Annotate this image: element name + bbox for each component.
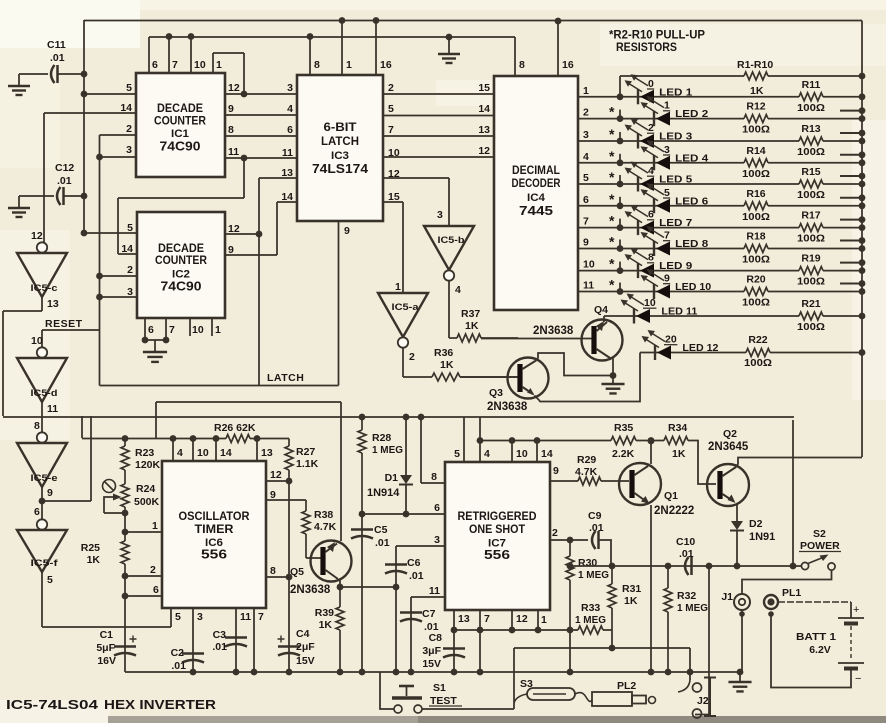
svg-text:10: 10 <box>583 259 595 271</box>
svg-text:100Ω: 100Ω <box>742 297 770 309</box>
svg-text:PL2: PL2 <box>617 680 636 692</box>
svg-text:2N2222: 2N2222 <box>654 505 694 517</box>
svg-text:R35: R35 <box>614 422 633 434</box>
svg-text:7445: 7445 <box>519 204 553 218</box>
svg-text:7: 7 <box>172 59 178 71</box>
IC6 bottom stubs <box>170 608 172 627</box>
svg-text:5: 5 <box>126 82 132 94</box>
svg-text:*: * <box>609 148 615 164</box>
svg-text:IC5-74LS04: IC5-74LS04 <box>6 697 99 712</box>
svg-text:10: 10 <box>31 335 43 347</box>
svg-text:5: 5 <box>454 448 460 460</box>
capacitor C6 .01 <box>395 546 397 672</box>
svg-text:7: 7 <box>258 611 264 623</box>
capacitor C12 <box>57 187 61 205</box>
svg-text:6: 6 <box>287 124 293 136</box>
LED 10 <box>653 284 655 299</box>
svg-text:IC4: IC4 <box>527 192 546 204</box>
svg-text:1K: 1K <box>672 448 686 460</box>
Q5 collector line <box>156 401 341 403</box>
svg-text:12: 12 <box>516 613 528 625</box>
svg-text:1: 1 <box>541 614 547 626</box>
svg-text:1: 1 <box>395 281 401 293</box>
svg-text:R28: R28 <box>372 432 391 444</box>
svg-text:100Ω: 100Ω <box>744 357 772 369</box>
wire IC3 pin5 to IC4 pin14 <box>383 115 494 117</box>
resistor R14 100ohm <box>744 159 768 167</box>
IC3 pin9 stub down <box>338 221 340 386</box>
svg-text:C9: C9 <box>588 510 602 522</box>
svg-text:4.7K: 4.7K <box>314 521 337 533</box>
svg-text:11: 11 <box>282 147 293 159</box>
svg-text:11: 11 <box>228 146 239 158</box>
svg-text:R36: R36 <box>434 347 453 359</box>
svg-text:12: 12 <box>31 230 43 242</box>
svg-text:1 MEG: 1 MEG <box>578 569 609 581</box>
svg-text:2μF: 2μF <box>296 641 315 653</box>
V+ rail right side <box>861 21 863 458</box>
IC5-d output to IC5-e <box>41 402 43 432</box>
svg-text:12: 12 <box>478 145 490 157</box>
svg-text:2N3638: 2N3638 <box>533 325 574 337</box>
svg-text:LED 5: LED 5 <box>659 174 692 186</box>
svg-text:15V: 15V <box>422 658 441 670</box>
svg-text:C8: C8 <box>429 632 443 644</box>
svg-text:LED 2: LED 2 <box>675 108 708 120</box>
wire IC6 pin6 <box>124 576 126 596</box>
svg-text:556: 556 <box>201 548 227 562</box>
svg-text:100Ω: 100Ω <box>797 102 825 114</box>
6-bit latch IC3 74LS174 box <box>297 75 383 221</box>
svg-text:15: 15 <box>478 82 490 94</box>
ground below Q4 <box>601 383 624 385</box>
svg-text:7: 7 <box>388 124 394 136</box>
resistor R18 100ohm <box>744 245 768 253</box>
Q4 emitter wire up to LED11 <box>603 316 605 322</box>
svg-text:1: 1 <box>215 324 221 336</box>
svg-text:1N914: 1N914 <box>367 487 400 499</box>
svg-text:4: 4 <box>455 284 461 296</box>
wire IC6 pin2 <box>122 573 129 580</box>
svg-text:1 MEG: 1 MEG <box>575 614 606 626</box>
svg-text:6: 6 <box>583 194 589 206</box>
svg-text:R18: R18 <box>746 231 765 243</box>
svg-text:2: 2 <box>583 107 589 119</box>
svg-text:R33: R33 <box>581 602 600 614</box>
inverter IC5-f <box>37 519 47 529</box>
ground below J1 <box>728 681 751 683</box>
wire C5/D1 node to IC7 pin6 <box>362 513 445 515</box>
svg-text:RESISTORS: RESISTORS <box>616 42 677 54</box>
svg-text:R19: R19 <box>801 253 820 265</box>
svg-text:9: 9 <box>553 465 559 477</box>
svg-text:C12: C12 <box>55 162 74 174</box>
svg-text:3: 3 <box>197 611 203 623</box>
svg-text:13: 13 <box>478 124 490 136</box>
vertical pin12 to pin8 <box>288 481 290 577</box>
IC7 bottom rail <box>454 629 578 631</box>
Q3 collector jog to Q4 ground node <box>536 353 613 376</box>
svg-text:C6: C6 <box>407 557 421 569</box>
svg-text:2: 2 <box>127 264 133 276</box>
ground for C12 <box>18 196 20 208</box>
svg-text:4: 4 <box>177 447 183 459</box>
svg-text:R17: R17 <box>801 210 820 222</box>
svg-text:2: 2 <box>552 527 558 539</box>
node C11/V+ vertical <box>81 71 88 78</box>
svg-text:C11: C11 <box>47 39 66 51</box>
svg-text:.01: .01 <box>50 52 65 64</box>
resistor R20 100ohm <box>744 288 768 296</box>
IC3 pin13 wire <box>259 177 297 179</box>
resistor R11 100ohm <box>799 93 823 101</box>
svg-text:R22: R22 <box>748 334 767 346</box>
svg-text:C10: C10 <box>676 536 695 548</box>
svg-text:*: * <box>609 169 615 185</box>
svg-text:IC5-c: IC5-c <box>31 283 58 294</box>
svg-text:IC3: IC3 <box>331 150 349 162</box>
svg-text:S1: S1 <box>433 682 446 694</box>
LED 4 <box>653 155 655 170</box>
resistor R12 100ohm <box>744 115 768 123</box>
transistor Q4 2N3638 <box>481 338 592 340</box>
svg-text:LED 10: LED 10 <box>675 281 711 293</box>
LED 7 <box>637 220 639 235</box>
svg-text:−: − <box>855 673 861 685</box>
wire C11 to node <box>58 73 84 75</box>
wire IC3 pin2 to IC4 pin15 <box>383 93 494 95</box>
R31 bottom to S1 line <box>611 630 613 648</box>
svg-text:74C90: 74C90 <box>160 140 201 154</box>
Q5 collector junction down to R39 <box>339 580 341 587</box>
diode D2 1N91 <box>731 521 743 530</box>
wire IC3 pin12 to IC5-b input <box>383 177 449 179</box>
svg-text:1K: 1K <box>624 595 638 607</box>
diode D1 1N914 <box>403 414 410 421</box>
svg-text:10: 10 <box>516 448 528 460</box>
svg-text:R13: R13 <box>801 123 820 135</box>
svg-text:13: 13 <box>458 613 470 625</box>
svg-text:TIMER: TIMER <box>195 522 234 536</box>
capacitor C1 5uF 16V <box>124 596 126 672</box>
svg-text:RESET: RESET <box>45 318 83 330</box>
inverter IC5-e <box>37 432 47 442</box>
wire IC6 pin8 <box>286 574 293 581</box>
svg-text:LATCH: LATCH <box>267 372 304 384</box>
wire J1 to ground <box>741 610 743 672</box>
svg-text:4: 4 <box>287 103 293 115</box>
wire C12 to node <box>64 195 84 197</box>
svg-text:74LS174: 74LS174 <box>312 162 368 176</box>
svg-text:100Ω: 100Ω <box>742 168 770 180</box>
svg-text:R34: R34 <box>668 422 687 434</box>
wire C12 left <box>19 195 54 197</box>
svg-text:C2: C2 <box>171 647 185 659</box>
svg-text:14: 14 <box>478 103 490 115</box>
resistor R17 100ohm <box>799 224 823 232</box>
pull-up R2-R10 stubs on V+ rail <box>840 110 862 112</box>
svg-text:LED 9: LED 9 <box>659 260 692 272</box>
capacitor C2 .01 <box>182 652 204 655</box>
ground below IC2 <box>143 351 167 353</box>
oscillator timer IC6 556 box <box>162 461 266 608</box>
svg-text:100Ω: 100Ω <box>742 211 770 223</box>
svg-text:100Ω: 100Ω <box>797 233 825 245</box>
svg-text:12: 12 <box>270 469 282 481</box>
svg-text:16: 16 <box>380 59 392 71</box>
LED 6 <box>653 198 655 213</box>
capacitor C9 .01 <box>570 539 588 541</box>
svg-text:13: 13 <box>261 447 273 459</box>
wire IC7 pin11 to C7 <box>411 596 445 598</box>
svg-text:R1-R10: R1-R10 <box>737 59 773 71</box>
wire IC3 pin7 to IC4 pin13 <box>383 135 494 137</box>
svg-text:2: 2 <box>126 123 132 135</box>
svg-text:1: 1 <box>216 59 222 71</box>
resistor R19 100ohm <box>799 267 823 275</box>
svg-text:+: + <box>853 604 859 616</box>
svg-text:R21: R21 <box>801 298 820 310</box>
svg-text:13: 13 <box>281 167 293 179</box>
capacitor C8 3uF 15V <box>453 630 455 672</box>
wire C11 left <box>19 73 48 75</box>
svg-text:1K: 1K <box>319 619 333 631</box>
LED 5 <box>637 177 639 192</box>
svg-text:.01: .01 <box>409 570 424 582</box>
svg-text:11: 11 <box>429 585 440 597</box>
capacitor C10 .01 <box>685 557 689 575</box>
svg-text:*: * <box>609 104 615 120</box>
svg-text:7: 7 <box>583 216 589 228</box>
svg-text:.01: .01 <box>57 175 72 187</box>
wire IC3 pin10 to IC4 pin12 <box>383 156 494 158</box>
battery top cell <box>838 617 864 619</box>
LED 11 <box>633 309 635 324</box>
svg-text:IC5-a: IC5-a <box>392 302 420 313</box>
IC5-e input junction to IC5-f output <box>41 487 43 519</box>
svg-text:2: 2 <box>150 564 156 576</box>
svg-text:.01: .01 <box>589 522 604 534</box>
svg-text:C7: C7 <box>422 608 436 620</box>
svg-text:R25: R25 <box>81 542 100 554</box>
svg-text:R23: R23 <box>135 447 154 459</box>
resistor R28 1MEG <box>359 414 366 421</box>
svg-text:100Ω: 100Ω <box>797 276 825 288</box>
decimal decoder IC4 7445 box <box>494 76 578 310</box>
svg-text:R29: R29 <box>577 454 596 466</box>
svg-text:4.7K: 4.7K <box>575 466 598 478</box>
IC1 top pin stubs 6 7 10 1 <box>148 37 150 73</box>
svg-text:3: 3 <box>664 144 670 156</box>
svg-text:100Ω: 100Ω <box>742 254 770 266</box>
svg-text:14: 14 <box>121 243 133 255</box>
svg-text:R38: R38 <box>314 509 333 521</box>
IC6 top pin stubs <box>172 439 174 462</box>
svg-text:16V: 16V <box>97 655 116 667</box>
IC7 pin5 stub to V+ <box>463 417 465 462</box>
svg-text:R14: R14 <box>746 145 765 157</box>
wire W2 pins 6,7,10 to IC3 pin 8 and IC4 pin 8 <box>149 36 515 38</box>
svg-text:*R2-R10 PULL-UP: *R2-R10 PULL-UP <box>609 30 705 42</box>
svg-text:1K: 1K <box>750 85 764 97</box>
svg-text:9: 9 <box>344 225 350 237</box>
svg-text:6: 6 <box>34 506 40 518</box>
vertical IC2 pin12 node down to latch line <box>258 234 260 386</box>
LED 12 <box>654 345 656 360</box>
wire IC1 pin14 to IC5-c output <box>44 112 136 114</box>
svg-text:DECODER: DECODER <box>512 176 561 190</box>
IC4 top pin stub 8 <box>514 37 516 76</box>
resistor R15 100ohm <box>799 180 823 188</box>
svg-text:*: * <box>609 234 615 250</box>
decade counter IC1 74C90 box <box>136 73 225 177</box>
oscillator rail drop <box>81 416 83 438</box>
capacitor C3 .01 <box>225 636 247 639</box>
svg-text:100Ω: 100Ω <box>797 189 825 201</box>
svg-text:1 MEG: 1 MEG <box>677 602 708 614</box>
svg-text:8: 8 <box>228 124 234 136</box>
svg-text:6: 6 <box>152 59 158 71</box>
Q1 emitter down to ground rail <box>650 505 652 672</box>
svg-text:100Ω: 100Ω <box>797 146 825 158</box>
wire R34 to Q2 base <box>688 441 716 485</box>
svg-text:R24: R24 <box>136 483 155 495</box>
svg-text:IC5-f: IC5-f <box>31 558 59 569</box>
Q2 emitter to D2 <box>736 503 738 521</box>
svg-text:5: 5 <box>388 103 394 115</box>
svg-text:3: 3 <box>437 209 443 221</box>
retriggered one shot IC7 556 box <box>445 462 550 610</box>
svg-text:6: 6 <box>648 209 654 221</box>
svg-text:1K: 1K <box>440 359 454 371</box>
decade counter IC2 74C90 box <box>137 212 225 318</box>
svg-text:3μF: 3μF <box>422 645 441 657</box>
IC5-a output wire to R36 <box>402 348 404 377</box>
V+ drop to power switch <box>792 420 794 566</box>
svg-text:LED 3: LED 3 <box>659 131 692 143</box>
wire LED 11 row <box>604 315 799 317</box>
svg-text:14: 14 <box>541 448 553 460</box>
svg-text:POWER: POWER <box>800 540 840 552</box>
IC2 ground wire <box>145 339 166 341</box>
svg-text:PL1: PL1 <box>782 587 801 599</box>
svg-text:R31: R31 <box>622 583 641 595</box>
IC7 bottom pin stubs <box>453 610 455 630</box>
svg-text:5: 5 <box>664 187 670 199</box>
svg-text:IC5-b: IC5-b <box>438 235 465 246</box>
svg-text:14: 14 <box>220 447 232 459</box>
main lower wire C10 row <box>570 565 793 567</box>
svg-text:DECIMAL: DECIMAL <box>512 163 560 177</box>
IC4 top pin stub 16 <box>557 21 559 76</box>
svg-text:OSCILLATOR: OSCILLATOR <box>179 509 250 523</box>
svg-text:16: 16 <box>562 59 574 71</box>
top supply wire W1 <box>84 20 862 22</box>
wire IC1 pin2 <box>100 134 137 136</box>
wire LED 12 row <box>640 352 746 354</box>
svg-text:R15: R15 <box>801 166 820 178</box>
svg-text:1K: 1K <box>87 554 101 566</box>
svg-text:10: 10 <box>644 297 656 309</box>
svg-text:3: 3 <box>583 129 589 141</box>
svg-text:Q1: Q1 <box>664 490 678 502</box>
IC5-f input wire from IC6 pin5 <box>41 572 43 627</box>
drop to J2 tip <box>689 648 691 680</box>
svg-text:12: 12 <box>228 82 240 94</box>
svg-text:R32: R32 <box>677 590 696 602</box>
svg-text:9: 9 <box>47 487 53 499</box>
svg-text:500K: 500K <box>134 496 160 508</box>
svg-text:6: 6 <box>148 324 154 336</box>
svg-text:4: 4 <box>583 151 589 163</box>
svg-text:R37: R37 <box>461 308 480 320</box>
svg-text:J2: J2 <box>697 695 709 707</box>
reset/latch vertical chain <box>99 135 101 330</box>
Q1 collector up to rail <box>650 441 652 464</box>
svg-text:0: 0 <box>648 78 654 90</box>
svg-text:13: 13 <box>47 298 59 310</box>
wire IC3 pin15 to IC5-a input <box>383 201 403 203</box>
svg-text:3: 3 <box>287 82 293 94</box>
wire IC1 pin3 <box>100 156 137 158</box>
svg-text:7: 7 <box>169 324 175 336</box>
svg-text:Q2: Q2 <box>723 428 737 440</box>
svg-text:.01: .01 <box>679 548 694 560</box>
svg-text:9: 9 <box>664 273 670 285</box>
Q4 collector to ground <box>612 358 614 376</box>
latch wire <box>100 385 339 387</box>
svg-text:LED 1: LED 1 <box>659 86 692 98</box>
svg-text:8: 8 <box>519 59 525 71</box>
wire IC1 pin5 <box>84 93 136 95</box>
svg-text:74C90: 74C90 <box>161 280 202 294</box>
svg-text:R20: R20 <box>746 274 765 286</box>
Q2 collector wire to LED rail <box>736 458 862 468</box>
svg-text:4: 4 <box>484 448 490 460</box>
svg-text:LED 12: LED 12 <box>682 342 718 354</box>
svg-text:HEX INVERTER: HEX INVERTER <box>104 698 216 712</box>
IC7 top pin stubs 4 10 14 <box>479 417 481 462</box>
svg-text:5: 5 <box>47 574 53 586</box>
wire IC2 pin3 <box>100 296 138 298</box>
svg-text:C3: C3 <box>213 629 227 641</box>
svg-text:100Ω: 100Ω <box>797 321 825 333</box>
svg-text:11: 11 <box>47 403 58 415</box>
svg-text:IC1: IC1 <box>171 128 189 140</box>
svg-text:R11: R11 <box>802 79 821 91</box>
oscillator top rail <box>82 438 226 440</box>
wire IC1 pin8 to IC3 pin6 <box>225 135 297 137</box>
wire IC2 pin12 to IC3 pin13 <box>225 233 259 235</box>
svg-text:1K: 1K <box>465 320 479 332</box>
capacitor C5 .01 <box>361 514 363 672</box>
svg-text:11: 11 <box>240 611 251 623</box>
svg-text:LED 8: LED 8 <box>675 238 708 250</box>
svg-text:Q3: Q3 <box>489 387 503 399</box>
svg-text:3: 3 <box>434 534 440 546</box>
svg-text:14: 14 <box>120 102 132 114</box>
svg-text:4: 4 <box>648 165 654 177</box>
svg-text:15V: 15V <box>296 655 315 667</box>
svg-text:*: * <box>609 126 615 142</box>
svg-text:10: 10 <box>194 59 206 71</box>
Q3 emitter wire to LED12 <box>535 353 641 402</box>
svg-text:2N3638: 2N3638 <box>290 584 331 596</box>
wire IC6 pin1 <box>124 513 126 532</box>
svg-text:556: 556 <box>484 548 510 562</box>
svg-text:5: 5 <box>583 172 589 184</box>
svg-text:1.1K: 1.1K <box>296 458 319 470</box>
